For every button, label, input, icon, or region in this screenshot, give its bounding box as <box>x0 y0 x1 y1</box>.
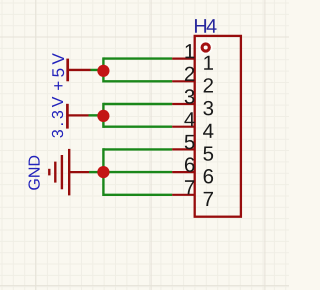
wire pin4 horizontal <box>103 125 172 127</box>
ground symbol bar 2 <box>54 162 56 183</box>
wire pin7 horizontal <box>103 194 172 196</box>
ground symbol bar 4 <box>68 149 70 196</box>
wire GND stub <box>89 171 103 173</box>
ground symbol lead <box>69 171 89 173</box>
pin 3 of H4 <box>172 89 213 115</box>
pin-1 indicator circle <box>202 44 209 51</box>
wire +5V stub <box>91 69 104 71</box>
ground symbol bar 3 <box>61 155 63 189</box>
power port 3.3V lead <box>67 114 88 116</box>
pin 2 of H4 <box>172 67 213 93</box>
wire pin2 horizontal <box>103 80 172 82</box>
wire pin6 horizontal <box>103 171 172 173</box>
net label 3.3V <box>52 97 63 138</box>
power port 3.3V bar <box>66 104 69 129</box>
wire pin1 horizontal <box>103 57 172 59</box>
power port +5V bar <box>66 59 69 82</box>
junction GND <box>97 166 109 178</box>
pin 4 of H4 <box>172 112 213 138</box>
pin 7 of H4 <box>172 180 213 206</box>
net label +5V <box>52 53 64 90</box>
junction 3.3V <box>97 110 109 122</box>
pin 1 of H4 <box>172 44 213 70</box>
pin 5 of H4 <box>172 135 213 161</box>
connector H4 body <box>195 36 241 217</box>
junction +5V <box>97 65 109 77</box>
wire +5V vertical bus <box>102 57 104 82</box>
ground symbol bar 1 <box>48 169 50 176</box>
pin-1 indicator circle halo <box>199 40 213 54</box>
designator H4 <box>195 19 217 33</box>
wire GND vertical bus <box>102 148 104 196</box>
net label GND <box>28 156 39 190</box>
wire 3.3V stub <box>89 114 104 116</box>
pin 6 of H4 <box>172 157 213 183</box>
wire 3.3V vertical bus <box>102 103 104 128</box>
power port +5V lead <box>68 69 91 71</box>
wire pin5 horizontal <box>103 148 172 150</box>
wire pin3 horizontal <box>103 103 172 105</box>
